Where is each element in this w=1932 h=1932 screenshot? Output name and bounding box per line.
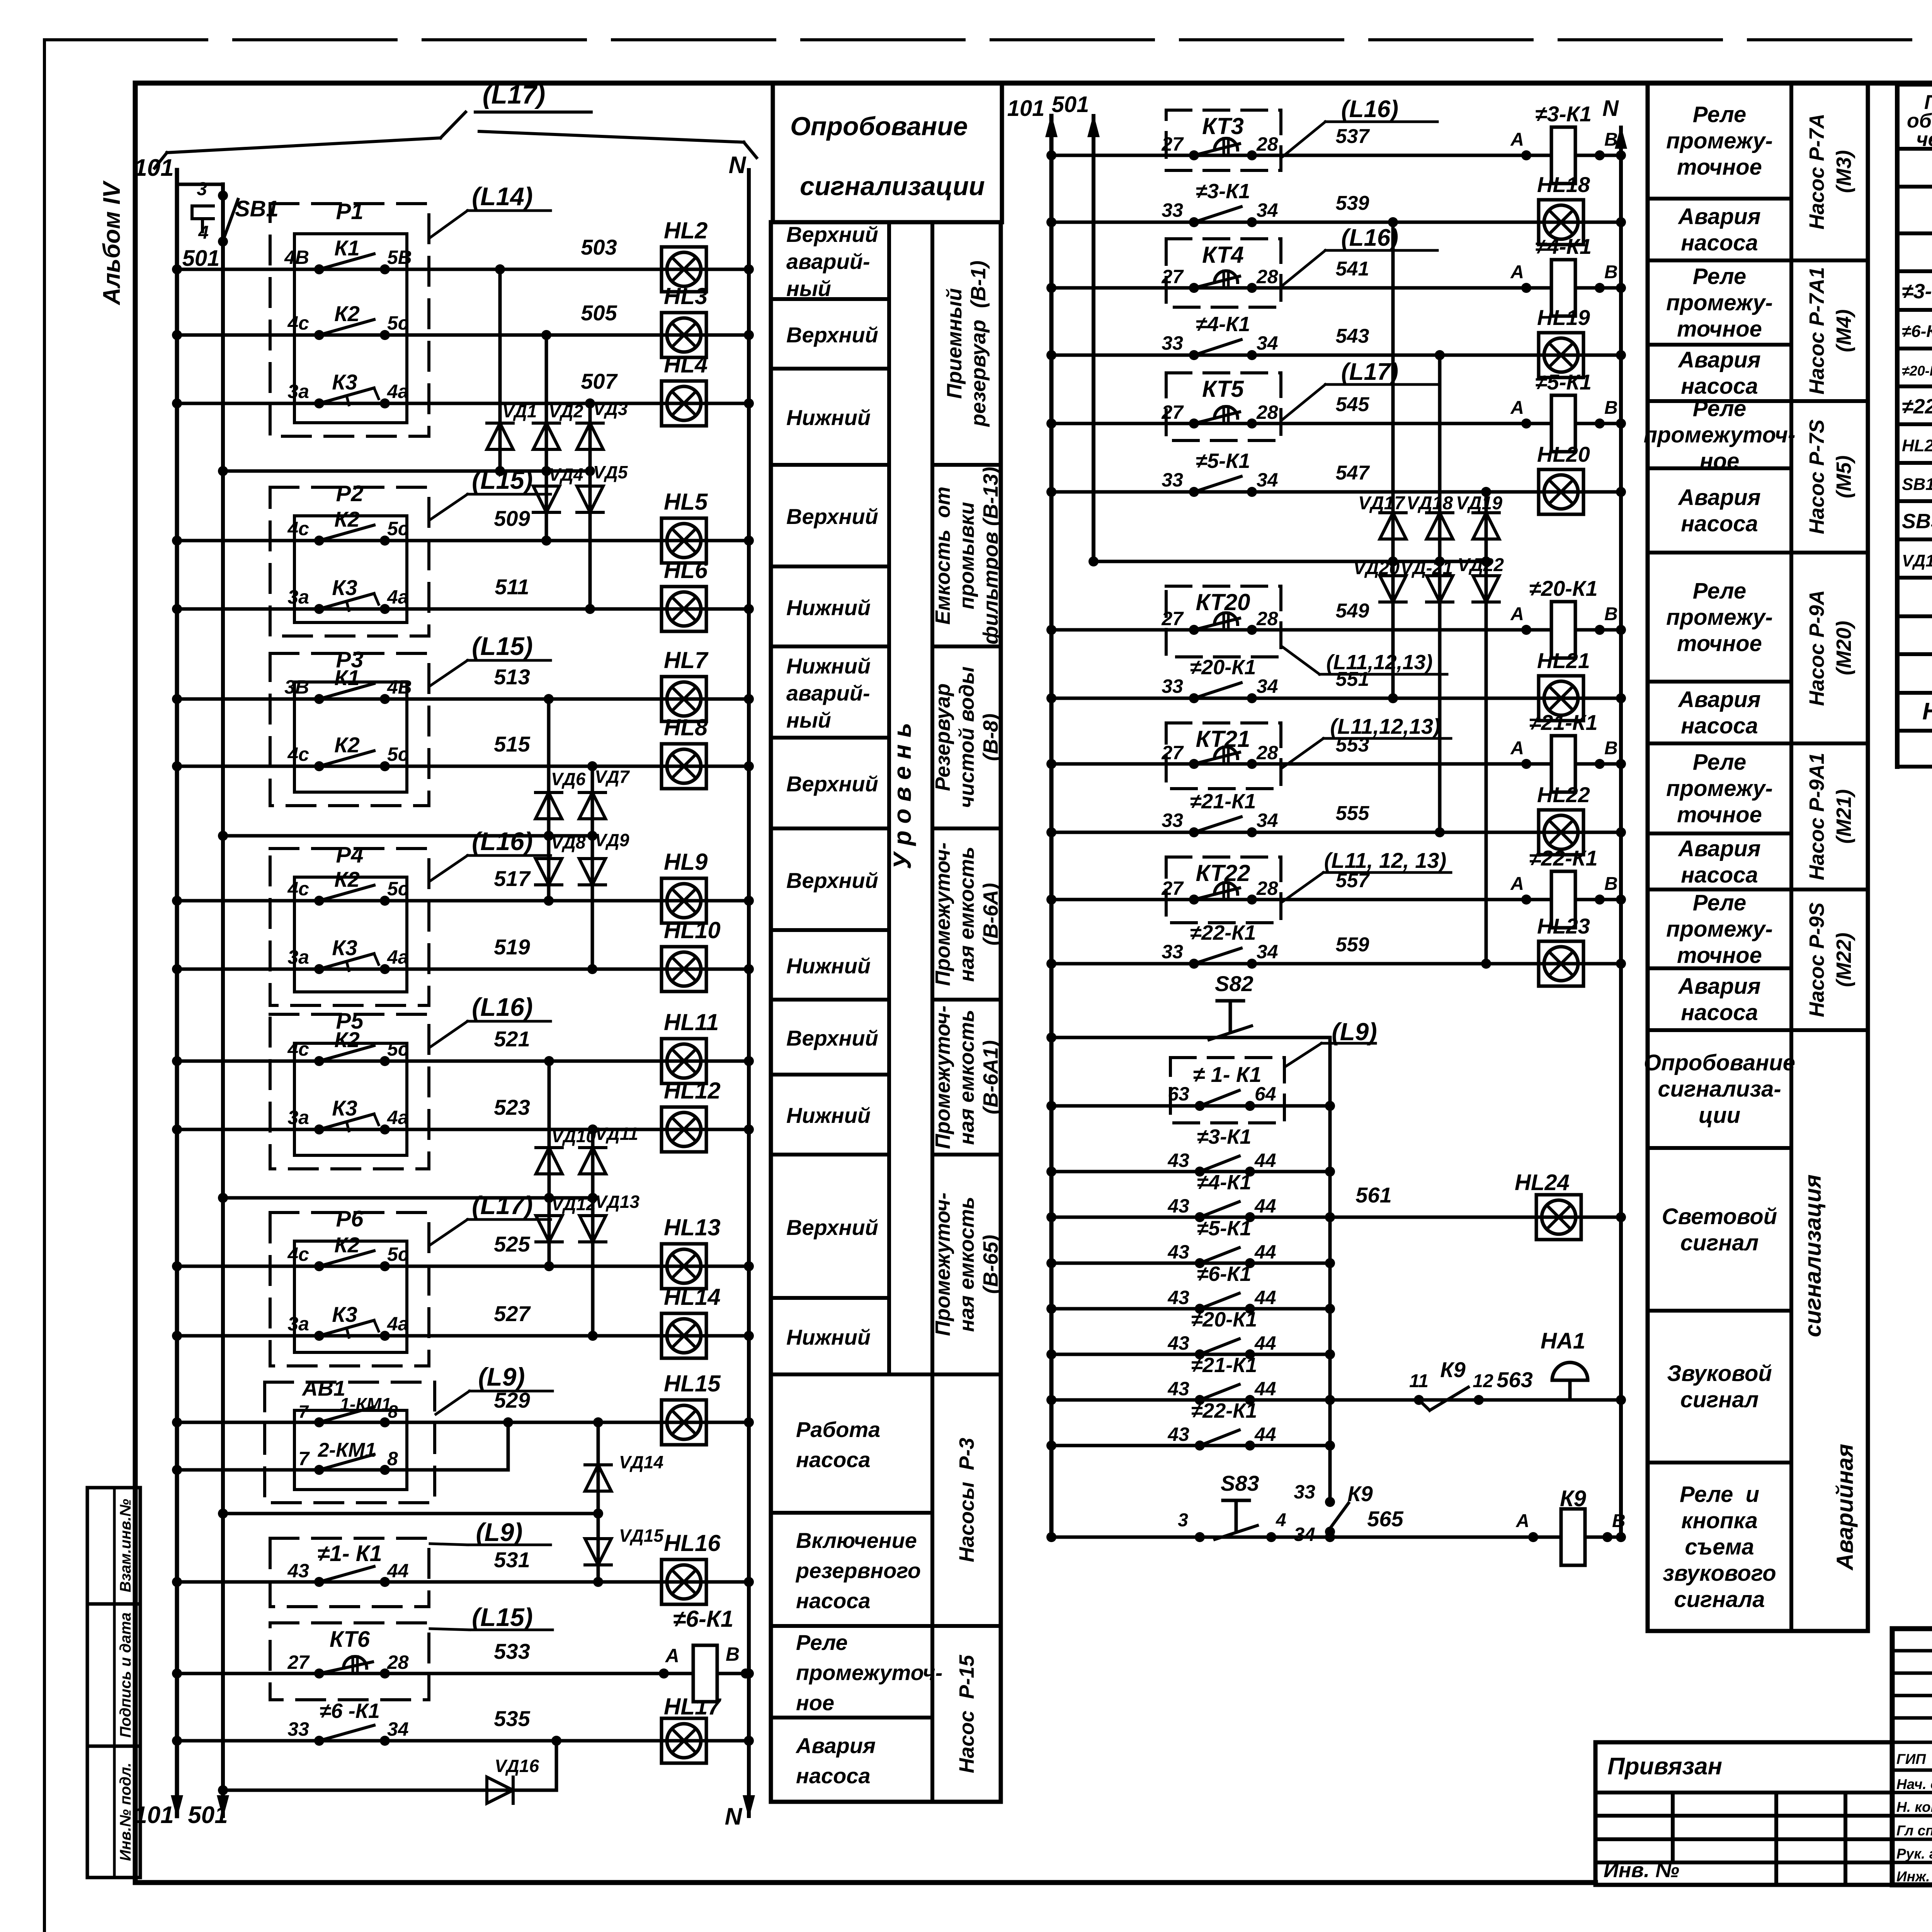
svg-text:К2: К2 bbox=[334, 301, 360, 326]
svg-text:11: 11 bbox=[1409, 1371, 1429, 1391]
svg-text:VД18: VД18 bbox=[1406, 493, 1453, 514]
svg-text:≠21-К1: ≠21-К1 bbox=[1191, 1354, 1257, 1377]
svg-text:3а: 3а bbox=[287, 946, 309, 968]
svg-text:S82: S82 bbox=[1215, 971, 1253, 996]
svg-text:531: 531 bbox=[494, 1548, 530, 1572]
svg-text:Нижний: Нижний bbox=[786, 1103, 871, 1128]
svg-text:(М5): (М5) bbox=[1832, 456, 1855, 498]
svg-text:43: 43 bbox=[1167, 1195, 1189, 1217]
svg-text:Инж.: Инж. bbox=[1896, 1869, 1930, 1884]
svg-text:3а: 3а bbox=[287, 381, 309, 402]
svg-text:Нижний: Нижний bbox=[786, 405, 871, 430]
svg-text:≠20-К1: ≠20-К1 bbox=[1191, 1308, 1257, 1331]
svg-text:101: 101 bbox=[1007, 96, 1045, 121]
svg-text:43: 43 bbox=[1167, 1287, 1189, 1308]
svg-text:Авария: Авария bbox=[795, 1733, 876, 1758]
svg-text:VД7: VД7 bbox=[595, 767, 630, 787]
svg-text:VД1: VД1 bbox=[502, 401, 537, 421]
svg-text:HL2...HL24: HL2...HL24 bbox=[1902, 436, 1932, 455]
svg-text:VД22: VД22 bbox=[1458, 555, 1504, 575]
svg-text:34: 34 bbox=[387, 1718, 409, 1740]
svg-text:44: 44 bbox=[387, 1560, 409, 1582]
svg-text:сигнализации: сигнализации bbox=[800, 172, 985, 201]
svg-text:КТ20: КТ20 bbox=[1196, 589, 1250, 615]
svg-text:≠6-К1: ≠6-К1 bbox=[673, 1606, 734, 1632]
svg-text:≠20-К1: ≠20-К1 bbox=[1190, 656, 1256, 679]
svg-text:аварий-: аварий- bbox=[786, 681, 870, 705]
svg-text:ное: ное bbox=[796, 1690, 834, 1715]
svg-text:533: 533 bbox=[494, 1639, 530, 1663]
svg-text:44: 44 bbox=[1254, 1150, 1276, 1171]
svg-text:Н. контр.: Н. контр. bbox=[1896, 1799, 1932, 1815]
svg-text:точное: точное bbox=[1677, 802, 1762, 827]
svg-text:промежу-: промежу- bbox=[1666, 290, 1773, 315]
svg-text:≠4-К1: ≠4-К1 bbox=[1197, 1171, 1252, 1194]
svg-text:А: А bbox=[1515, 1511, 1529, 1531]
svg-text:5с: 5с bbox=[387, 878, 409, 900]
svg-text:Нижний: Нижний bbox=[786, 1325, 871, 1349]
svg-text:44: 44 bbox=[1254, 1378, 1276, 1400]
svg-text:(В-6А1): (В-6А1) bbox=[979, 1040, 1002, 1114]
svg-text:≠22-К1: ≠22-К1 bbox=[1191, 1399, 1257, 1422]
svg-text:559: 559 bbox=[1336, 934, 1369, 956]
svg-text:точное: точное bbox=[1677, 316, 1762, 342]
svg-text:ции: ции bbox=[1699, 1103, 1740, 1128]
svg-text:513: 513 bbox=[494, 665, 530, 689]
svg-text:К2: К2 bbox=[334, 1233, 360, 1257]
svg-text:5с: 5с bbox=[387, 1038, 409, 1060]
svg-text:≠ 1- К1: ≠ 1- К1 bbox=[1193, 1062, 1261, 1087]
svg-text:34: 34 bbox=[1257, 941, 1278, 963]
svg-text:Промежуточ-: Промежуточ- bbox=[931, 842, 954, 986]
svg-text:SB3: SB3 bbox=[1902, 510, 1932, 533]
svg-text:(L11, 12, 13): (L11, 12, 13) bbox=[1324, 848, 1446, 872]
svg-text:Насос Р-7S: Насос Р-7S bbox=[1805, 419, 1828, 534]
svg-text:насоса: насоса bbox=[796, 1764, 871, 1788]
svg-text:501: 501 bbox=[1052, 92, 1089, 117]
svg-text:промежуточ-: промежуточ- bbox=[796, 1660, 942, 1685]
svg-text:4В: 4В bbox=[387, 676, 412, 698]
svg-text:3а: 3а bbox=[287, 586, 309, 608]
svg-text:27: 27 bbox=[1161, 401, 1184, 423]
svg-text:27: 27 bbox=[1161, 608, 1184, 629]
svg-text:≠22-К1: ≠22-К1 bbox=[1190, 921, 1256, 944]
svg-text:НА1: НА1 bbox=[1541, 1328, 1585, 1354]
svg-text:В: В bbox=[1604, 604, 1618, 624]
svg-text:Световой: Световой bbox=[1662, 1204, 1777, 1229]
svg-text:3а: 3а bbox=[287, 1313, 309, 1335]
svg-text:501: 501 bbox=[182, 246, 220, 271]
svg-text:Авария: Авария bbox=[1677, 836, 1760, 861]
svg-text:5с: 5с bbox=[387, 1243, 409, 1265]
svg-text:(L17): (L17) bbox=[1341, 359, 1398, 385]
svg-text:HL18: HL18 bbox=[1537, 172, 1590, 197]
svg-text:насоса: насоса bbox=[796, 1447, 871, 1472]
svg-text:насоса: насоса bbox=[1681, 374, 1758, 399]
svg-text:В: В bbox=[726, 1643, 740, 1665]
svg-text:В: В bbox=[1604, 738, 1618, 759]
svg-text:511: 511 bbox=[495, 575, 529, 599]
svg-text:63: 63 bbox=[1168, 1083, 1189, 1105]
svg-text:VД14: VД14 bbox=[619, 1452, 663, 1472]
svg-text:промежу-: промежу- bbox=[1666, 776, 1773, 801]
svg-text:44: 44 bbox=[1254, 1332, 1276, 1354]
svg-text:К3: К3 bbox=[332, 1302, 357, 1327]
svg-text:(L15): (L15) bbox=[472, 632, 533, 660]
svg-text:промежу-: промежу- bbox=[1666, 128, 1773, 153]
svg-text:Р1: Р1 bbox=[336, 199, 364, 224]
svg-text:промежу-: промежу- bbox=[1666, 605, 1773, 630]
svg-text:HL12: HL12 bbox=[664, 1078, 721, 1104]
svg-text:К3: К3 bbox=[332, 1096, 357, 1120]
svg-text:К1: К1 bbox=[334, 665, 360, 690]
svg-text:(L16): (L16) bbox=[1341, 96, 1398, 122]
svg-text:(М22): (М22) bbox=[1832, 932, 1855, 987]
svg-text:промежу-: промежу- bbox=[1666, 917, 1773, 942]
svg-text:27: 27 bbox=[1161, 266, 1184, 287]
svg-text:27: 27 bbox=[1161, 878, 1184, 899]
svg-text:КТ4: КТ4 bbox=[1202, 242, 1244, 268]
svg-text:34: 34 bbox=[1294, 1524, 1315, 1545]
svg-text:(L16): (L16) bbox=[1341, 224, 1398, 251]
svg-text:Нач. отд: Нач. отд bbox=[1896, 1776, 1932, 1792]
svg-text:28: 28 bbox=[1256, 266, 1278, 287]
svg-text:SB1, SB2: SB1, SB2 bbox=[1902, 475, 1932, 494]
svg-text:Авария: Авария bbox=[1677, 485, 1760, 510]
svg-text:≠21-К1: ≠21-К1 bbox=[1190, 790, 1256, 813]
svg-text:101: 101 bbox=[134, 1802, 173, 1828]
svg-text:VД20: VД20 bbox=[1353, 558, 1400, 578]
svg-text:аварий-: аварий- bbox=[786, 249, 870, 274]
svg-text:2-КМ1: 2-КМ1 bbox=[318, 1439, 376, 1461]
svg-text:Рук. гр.: Рук. гр. bbox=[1896, 1846, 1932, 1862]
svg-text:3: 3 bbox=[197, 179, 207, 199]
svg-text:HL14: HL14 bbox=[664, 1284, 721, 1310]
svg-text:Верхний: Верхний bbox=[786, 504, 878, 529]
svg-text:N: N bbox=[1602, 96, 1619, 121]
svg-text:4а: 4а bbox=[387, 1107, 409, 1128]
svg-text:≠3-К1: ≠3-К1 bbox=[1197, 1125, 1252, 1148]
svg-text:А: А bbox=[1510, 604, 1524, 624]
svg-text:VД6: VД6 bbox=[551, 769, 586, 789]
svg-text:Верхний: Верхний bbox=[786, 1026, 878, 1050]
svg-text:Авария: Авария bbox=[1677, 204, 1760, 229]
svg-text:сигнализа-: сигнализа- bbox=[1658, 1077, 1781, 1102]
svg-text:Насос Р-7А1: Насос Р-7А1 bbox=[1805, 267, 1828, 395]
svg-text:33: 33 bbox=[287, 1718, 309, 1740]
svg-text:Насос Р-9S: Насос Р-9S bbox=[1805, 902, 1828, 1017]
svg-text:5В: 5В bbox=[387, 247, 412, 268]
svg-text:ная емкость: ная емкость bbox=[955, 1197, 978, 1332]
svg-text:44: 44 bbox=[1254, 1423, 1276, 1445]
svg-text:28: 28 bbox=[1256, 133, 1278, 155]
svg-text:509: 509 bbox=[494, 506, 530, 531]
svg-text:Включение: Включение bbox=[796, 1528, 917, 1553]
svg-text:VД4: VД4 bbox=[549, 464, 583, 485]
svg-text:Реле и: Реле и bbox=[1680, 1482, 1759, 1507]
svg-text:HL21: HL21 bbox=[1537, 648, 1590, 673]
svg-text:КТ6: КТ6 bbox=[330, 1627, 370, 1652]
svg-text:VД1...VД22: VД1...VД22 bbox=[1902, 551, 1932, 570]
svg-text:27: 27 bbox=[1161, 742, 1184, 764]
svg-text:Р2: Р2 bbox=[336, 481, 364, 506]
svg-text:501: 501 bbox=[188, 1802, 228, 1828]
svg-text:44: 44 bbox=[1254, 1195, 1276, 1217]
svg-text:У р о в е н ь: У р о в е н ь bbox=[888, 723, 916, 869]
svg-text:33: 33 bbox=[1162, 469, 1183, 491]
svg-text:ный: ный bbox=[786, 276, 831, 301]
svg-text:промывки: промывки bbox=[955, 502, 978, 609]
svg-text:28: 28 bbox=[1256, 742, 1278, 764]
svg-text:33: 33 bbox=[1162, 332, 1183, 354]
svg-text:HL13: HL13 bbox=[664, 1214, 721, 1240]
svg-text:28: 28 bbox=[1256, 878, 1278, 899]
svg-text:К3: К3 bbox=[332, 370, 357, 394]
svg-text:HL3: HL3 bbox=[664, 283, 707, 309]
svg-text:563: 563 bbox=[1497, 1367, 1532, 1392]
svg-text:Инв.№ подл.: Инв.№ подл. bbox=[117, 1763, 134, 1861]
svg-text:4с: 4с bbox=[287, 743, 309, 765]
svg-text:В: В bbox=[1604, 398, 1618, 418]
svg-text:555: 555 bbox=[1336, 802, 1370, 825]
svg-text:≠4-К1: ≠4-К1 bbox=[1196, 313, 1250, 336]
svg-text:Нижний: Нижний bbox=[786, 654, 871, 678]
svg-text:4а: 4а bbox=[387, 1313, 409, 1335]
svg-text:545: 545 bbox=[1336, 393, 1370, 416]
svg-text:Звуковой: Звуковой bbox=[1667, 1361, 1772, 1386]
svg-text:Нижний: Нижний bbox=[786, 595, 871, 620]
svg-text:А: А bbox=[1510, 874, 1524, 894]
svg-text:507: 507 bbox=[581, 369, 618, 393]
svg-text:4с: 4с bbox=[287, 312, 309, 334]
svg-text:А: А bbox=[1510, 262, 1524, 282]
svg-text:(М4): (М4) bbox=[1832, 310, 1855, 352]
svg-text:(В-8): (В-8) bbox=[979, 714, 1002, 761]
svg-text:8: 8 bbox=[388, 1401, 398, 1422]
svg-text:7: 7 bbox=[298, 1448, 310, 1469]
svg-text:565: 565 bbox=[1367, 1507, 1403, 1531]
svg-text:Насос Р-7А: Насос Р-7А bbox=[1805, 114, 1828, 230]
svg-text:насоса: насоса bbox=[1681, 862, 1758, 888]
svg-text:В: В bbox=[1604, 874, 1618, 894]
svg-text:звукового: звукового bbox=[1663, 1561, 1776, 1586]
svg-text:Нижний: Нижний bbox=[786, 954, 871, 978]
svg-text:5с: 5с bbox=[387, 518, 409, 539]
svg-text:28: 28 bbox=[387, 1651, 409, 1673]
svg-text:точное: точное bbox=[1677, 631, 1762, 656]
svg-text:К2: К2 bbox=[334, 507, 360, 531]
svg-text:(L9): (L9) bbox=[476, 1518, 523, 1546]
svg-text:К2: К2 bbox=[334, 733, 360, 757]
svg-text:28: 28 bbox=[1256, 608, 1278, 629]
svg-text:4В: 4В bbox=[284, 247, 309, 268]
svg-text:HL7: HL7 bbox=[664, 647, 709, 673]
svg-text:HL6: HL6 bbox=[664, 557, 708, 583]
svg-text:537: 537 bbox=[1336, 125, 1370, 148]
svg-text:Реле: Реле bbox=[1693, 396, 1746, 421]
svg-text:сигнал: сигнал bbox=[1680, 1387, 1759, 1412]
svg-text:34: 34 bbox=[1257, 199, 1278, 221]
svg-text:съема: съема bbox=[1685, 1534, 1754, 1560]
svg-text:VД16: VД16 bbox=[495, 1756, 539, 1776]
svg-text:Насосы Р-3: Насосы Р-3 bbox=[955, 1438, 978, 1562]
svg-text:Реле: Реле bbox=[1693, 264, 1746, 289]
svg-text:4: 4 bbox=[1276, 1510, 1286, 1531]
svg-text:(L14): (L14) bbox=[472, 182, 533, 211]
svg-text:(L17): (L17) bbox=[472, 1191, 533, 1219]
svg-text:Реле: Реле bbox=[796, 1630, 848, 1655]
svg-text:К1: К1 bbox=[334, 236, 360, 260]
svg-text:ГИП: ГИП bbox=[1896, 1751, 1926, 1767]
svg-text:(L11,12,13): (L11,12,13) bbox=[1330, 714, 1440, 738]
svg-text:Верхний: Верхний bbox=[786, 222, 878, 247]
svg-text:525: 525 bbox=[494, 1232, 530, 1256]
svg-text:12: 12 bbox=[1473, 1371, 1493, 1391]
svg-text:VД2: VД2 bbox=[549, 401, 583, 421]
svg-text:сигнала: сигнала bbox=[1674, 1587, 1765, 1612]
svg-text:4с: 4с bbox=[287, 1038, 309, 1060]
svg-text:Реле: Реле bbox=[1693, 890, 1746, 915]
svg-text:44: 44 bbox=[1254, 1241, 1276, 1263]
svg-text:Взам.инв.№: Взам.инв.№ bbox=[117, 1499, 134, 1592]
svg-text:Опробование: Опробование bbox=[1644, 1050, 1795, 1075]
svg-text:А: А bbox=[1510, 129, 1524, 150]
svg-text:фильтров (В-13): фильтров (В-13) bbox=[979, 467, 1002, 645]
svg-text:(В-6А): (В-6А) bbox=[979, 883, 1002, 946]
svg-text:К9: К9 bbox=[1440, 1357, 1466, 1382]
svg-text:(L17): (L17) bbox=[483, 80, 545, 109]
svg-text:КТ5: КТ5 bbox=[1202, 376, 1244, 402]
svg-text:насоса: насоса bbox=[796, 1588, 871, 1613]
svg-text:HL2: HL2 bbox=[664, 218, 707, 243]
svg-text:Авария: Авария bbox=[1677, 687, 1760, 712]
svg-text:64: 64 bbox=[1255, 1083, 1276, 1105]
svg-text:Насос Р-9А1: Насос Р-9А1 bbox=[1805, 753, 1828, 880]
svg-text:Аварийная: Аварийная bbox=[1832, 1444, 1858, 1571]
svg-text:≠3-К1..: ≠3-К1.. bbox=[1902, 280, 1932, 303]
svg-text:34: 34 bbox=[1257, 810, 1278, 831]
svg-text:(L11,12,13): (L11,12,13) bbox=[1326, 651, 1432, 674]
svg-text:505: 505 bbox=[581, 301, 617, 325]
svg-text:≠20-К1: ≠20-К1 bbox=[1529, 576, 1597, 600]
svg-text:К2: К2 bbox=[334, 867, 360, 891]
svg-text:527: 527 bbox=[494, 1301, 531, 1326]
svg-text:VД12: VД12 bbox=[551, 1194, 596, 1214]
svg-text:≠5-К1: ≠5-К1 bbox=[1196, 449, 1250, 473]
svg-text:≠6-К1, К9: ≠6-К1, К9 bbox=[1902, 322, 1932, 341]
svg-text:4с: 4с bbox=[287, 1243, 309, 1265]
svg-text:Приемный: Приемный bbox=[943, 288, 966, 399]
svg-text:≠3-К1: ≠3-К1 bbox=[1535, 102, 1592, 126]
svg-text:К3: К3 bbox=[332, 575, 357, 600]
svg-text:HL15: HL15 bbox=[664, 1371, 721, 1396]
svg-text:HL4: HL4 bbox=[664, 352, 707, 378]
svg-text:4а: 4а bbox=[387, 946, 409, 968]
svg-text:4с: 4с bbox=[287, 518, 309, 539]
svg-text:А: А bbox=[665, 1645, 679, 1667]
svg-text:27: 27 bbox=[287, 1651, 310, 1673]
svg-text:517: 517 bbox=[494, 866, 531, 891]
svg-text:VД3: VД3 bbox=[593, 399, 628, 419]
svg-text:насоса: насоса bbox=[1681, 1000, 1758, 1025]
svg-text:(L9): (L9) bbox=[1332, 1018, 1377, 1046]
svg-text:≠6-К1: ≠6-К1 bbox=[1197, 1262, 1252, 1286]
svg-text:HL11: HL11 bbox=[664, 1009, 719, 1035]
svg-text:Насос Р-15: Насос Р-15 bbox=[955, 1655, 978, 1773]
svg-text:VД8: VД8 bbox=[551, 832, 586, 852]
svg-text:HL16: HL16 bbox=[664, 1530, 721, 1556]
svg-text:Привязан: Привязан bbox=[1607, 1753, 1722, 1780]
svg-text:≠5-К1: ≠5-К1 bbox=[1197, 1217, 1252, 1240]
svg-text:541: 541 bbox=[1336, 258, 1369, 280]
svg-text:≠6 -К1: ≠6 -К1 bbox=[320, 1699, 380, 1723]
svg-text:чистой воды: чистой воды bbox=[955, 667, 978, 808]
svg-text:44: 44 bbox=[1254, 1287, 1276, 1308]
svg-text:VД11: VД11 bbox=[595, 1124, 638, 1144]
svg-text:Инв. №: Инв. № bbox=[1604, 1859, 1679, 1882]
svg-text:Р4: Р4 bbox=[336, 842, 364, 867]
svg-text:Авария: Авария bbox=[1677, 347, 1760, 372]
svg-text:549: 549 bbox=[1336, 600, 1369, 622]
svg-text:Верхний: Верхний bbox=[786, 323, 878, 347]
svg-text:А: А bbox=[1510, 738, 1524, 759]
svg-text:33: 33 bbox=[1162, 199, 1183, 221]
svg-text:Реле: Реле bbox=[1693, 102, 1746, 127]
svg-text:34: 34 bbox=[1257, 469, 1278, 491]
svg-text:3а: 3а bbox=[287, 1107, 309, 1128]
svg-text:Резервуар: Резервуар bbox=[931, 684, 954, 791]
svg-text:43: 43 bbox=[1167, 1332, 1189, 1354]
svg-text:А: А bbox=[1510, 398, 1524, 418]
svg-text:сигнал: сигнал bbox=[1680, 1230, 1759, 1255]
svg-text:33: 33 bbox=[1162, 675, 1183, 697]
svg-text:N: N bbox=[725, 1803, 743, 1830]
svg-text:43: 43 bbox=[1167, 1241, 1189, 1263]
svg-text:515: 515 bbox=[494, 732, 530, 756]
svg-text:точное: точное bbox=[1677, 943, 1762, 968]
svg-text:VД5: VД5 bbox=[593, 462, 628, 482]
svg-text:3: 3 bbox=[1178, 1510, 1188, 1531]
svg-text:535: 535 bbox=[494, 1706, 530, 1731]
svg-text:HL5: HL5 bbox=[664, 489, 708, 515]
svg-text:(М21): (М21) bbox=[1832, 789, 1855, 844]
svg-text:HL24: HL24 bbox=[1515, 1170, 1570, 1195]
svg-text:1-КМ1: 1-КМ1 bbox=[340, 1394, 391, 1414]
svg-text:43: 43 bbox=[1167, 1423, 1189, 1445]
svg-text:547: 547 bbox=[1336, 462, 1370, 484]
svg-text:33: 33 bbox=[1294, 1481, 1315, 1503]
svg-text:резервуар (В-1): резервуар (В-1) bbox=[967, 260, 990, 427]
svg-text:Опробование: Опробование bbox=[790, 112, 968, 141]
svg-text:HL8: HL8 bbox=[664, 714, 708, 740]
svg-text:Подпись и дата: Подпись и дата bbox=[117, 1612, 134, 1738]
svg-text:Реле: Реле bbox=[1693, 750, 1746, 775]
svg-text:539: 539 bbox=[1336, 192, 1369, 214]
svg-text:насоса: насоса bbox=[1681, 511, 1758, 536]
svg-text:43: 43 bbox=[1167, 1150, 1189, 1171]
svg-text:S83: S83 bbox=[1221, 1471, 1259, 1495]
svg-text:промежуточ-: промежуточ- bbox=[1644, 422, 1796, 447]
svg-text:4а: 4а bbox=[387, 381, 409, 402]
svg-text:8: 8 bbox=[387, 1448, 398, 1469]
svg-text:точное: точное bbox=[1677, 155, 1762, 180]
svg-text:АВ1: АВ1 bbox=[301, 1376, 345, 1400]
svg-text:Реле: Реле bbox=[1693, 578, 1746, 604]
svg-text:VД-21: VД-21 bbox=[1400, 558, 1453, 578]
svg-text:3В: 3В bbox=[284, 676, 309, 698]
svg-text:43: 43 bbox=[287, 1560, 309, 1582]
svg-text:(L9): (L9) bbox=[478, 1362, 525, 1391]
